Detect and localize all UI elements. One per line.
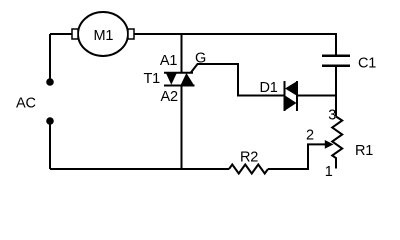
svg-text:D1: D1 xyxy=(260,80,278,96)
diode D1 triangles xyxy=(285,82,297,96)
svg-text:2: 2 xyxy=(306,128,314,144)
wire xyxy=(335,66,337,116)
wire xyxy=(268,144,326,169)
motor M1 xyxy=(72,12,134,56)
wire xyxy=(49,121,51,169)
svg-text:R1: R1 xyxy=(355,143,373,159)
wire xyxy=(191,64,285,96)
svg-text:T1: T1 xyxy=(144,71,161,87)
svg-text:3: 3 xyxy=(328,108,336,124)
node dot xyxy=(46,78,54,86)
svg-text:G: G xyxy=(195,51,206,67)
svg-text:M1: M1 xyxy=(94,28,114,44)
svg-text:R2: R2 xyxy=(240,150,258,166)
node dot xyxy=(46,117,54,125)
wiper arrow of R1 xyxy=(325,140,334,149)
wire xyxy=(49,34,51,82)
wire xyxy=(181,34,183,73)
wire xyxy=(134,34,336,56)
wire xyxy=(297,95,336,97)
svg-text:AC: AC xyxy=(16,95,36,111)
triac T1 triangles xyxy=(166,73,177,85)
diode D1 xyxy=(285,81,298,111)
triac T1 xyxy=(164,73,195,86)
wire xyxy=(181,86,183,170)
svg-text:1: 1 xyxy=(325,164,333,180)
svg-text:A2: A2 xyxy=(161,89,178,105)
potentiometer R1 xyxy=(332,117,342,169)
capacitor C1 xyxy=(322,56,350,66)
svg-text:A1: A1 xyxy=(160,53,177,69)
resistor R2 xyxy=(229,165,268,174)
wire xyxy=(50,33,72,35)
svg-text:C1: C1 xyxy=(358,56,376,72)
wire xyxy=(50,168,229,170)
